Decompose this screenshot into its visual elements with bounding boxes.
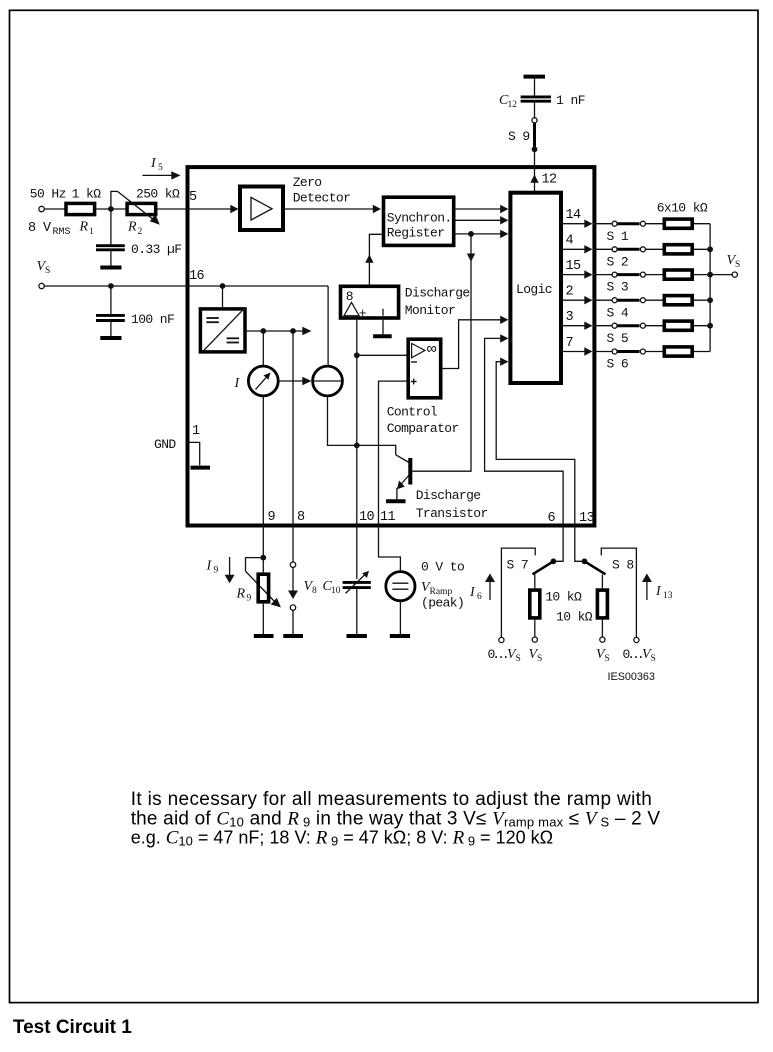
control comparator U7 [387, 339, 459, 436]
wire [262, 602, 264, 634]
switch S7 [507, 558, 557, 575]
svg-text:S 2: S 2 [607, 254, 629, 269]
wire to 100nF [110, 286, 112, 314]
svg-text:S 1: S 1 [607, 229, 629, 244]
arrow into logic [500, 316, 508, 324]
wire VS rail pin 16 [44, 285, 328, 287]
ground [100, 266, 121, 270]
node junction [290, 328, 296, 334]
capacitor 100nF [96, 312, 174, 327]
svg-text:Transistor: Transistor [416, 506, 488, 521]
wire [292, 610, 294, 634]
node junction [108, 206, 114, 212]
svg-text:Register: Register [387, 226, 445, 241]
synchron register U5 [384, 197, 454, 245]
wire node down to base line [470, 234, 472, 471]
svg-text:S: S [735, 260, 740, 270]
svg-text:8: 8 [312, 586, 317, 596]
svg-text:8: 8 [346, 289, 353, 304]
svg-text:12: 12 [508, 100, 518, 110]
wire pin 5 to zero detector [157, 208, 231, 210]
svg-text:6: 6 [548, 511, 556, 526]
svg-text:9: 9 [214, 566, 219, 576]
wire pin 14 row [561, 223, 585, 225]
switch S8 throw contact [601, 548, 636, 637]
svg-text:2: 2 [566, 285, 574, 300]
svg-text:S 9: S 9 [508, 129, 530, 144]
svg-text:8 V: 8 V [28, 221, 52, 236]
wire [645, 248, 662, 250]
node junction [108, 283, 114, 289]
svg-text:3: 3 [566, 310, 574, 325]
rectifier U2 [200, 308, 245, 353]
voltage probe V8 [288, 562, 317, 610]
arrow into register [373, 205, 381, 213]
pin 1 GND [154, 424, 210, 468]
node terminal 0..VS right [634, 637, 639, 642]
svg-text:R: R [127, 220, 137, 235]
node terminal 0..VS left [499, 637, 504, 642]
arrow [302, 377, 311, 385]
wire [645, 223, 662, 225]
resistor 10k (S8) [556, 574, 607, 637]
wire [645, 299, 662, 301]
svg-text:Discharge: Discharge [416, 488, 481, 503]
wire [694, 274, 710, 276]
wire zero detector to register [283, 208, 373, 210]
svg-text:5: 5 [189, 190, 197, 205]
svg-text:4: 4 [566, 234, 574, 249]
switch S6 [607, 349, 646, 372]
svg-text:10 kΩ: 10 kΩ [545, 589, 582, 604]
svg-text:9: 9 [268, 510, 276, 525]
wire [534, 103, 536, 118]
svg-text:9: 9 [247, 594, 252, 604]
svg-text:11: 11 [380, 510, 396, 525]
svg-text:15: 15 [566, 259, 582, 274]
svg-text:50 Hz: 50 Hz [30, 187, 66, 202]
svg-text:250 kΩ: 250 kΩ [136, 187, 180, 202]
svg-text:8: 8 [297, 510, 305, 525]
logic U6 [510, 193, 561, 383]
wire [694, 299, 710, 301]
ground [347, 634, 367, 638]
svg-text:∞: ∞ [427, 340, 437, 358]
ground (top, above C12) [524, 75, 546, 79]
node terminal VS input [37, 259, 51, 289]
svg-text:Detector: Detector [293, 191, 351, 206]
wire [110, 322, 112, 336]
node junction bus S3 [707, 272, 713, 278]
svg-text:10: 10 [331, 586, 341, 596]
svg-text:Test Circuit 1: Test Circuit 1 [13, 1017, 132, 1038]
arrow up into pin 12 [530, 175, 538, 183]
wire source bottom to node [328, 396, 357, 446]
svg-text:7: 7 [566, 336, 574, 351]
arrow [500, 216, 508, 224]
svg-text:nF: nF [571, 93, 585, 108]
svg-text:RMS: RMS [53, 227, 71, 238]
wire meter bottom to pin 9 [262, 396, 264, 558]
arrow [302, 327, 311, 335]
svg-text:0 V to: 0 V to [421, 560, 464, 575]
svg-text:10 kΩ: 10 kΩ [556, 609, 593, 624]
svg-text:13: 13 [579, 511, 595, 526]
svg-text:Synchron.: Synchron. [387, 210, 452, 225]
arrow into logic [500, 334, 508, 342]
wire [262, 558, 264, 574]
svg-text:Monitor: Monitor [405, 303, 455, 318]
capacitor C10 variable [323, 571, 371, 596]
ground (transistor emitter) [386, 499, 405, 503]
wire register out 2 [455, 219, 502, 221]
svg-text:S 6: S 6 [607, 357, 629, 372]
wire comparator plus input / pin 11 [379, 381, 407, 571]
svg-text:S: S [651, 654, 656, 664]
wire [694, 223, 710, 225]
svg-text:Comparator: Comparator [387, 421, 459, 436]
switch S8 [582, 558, 634, 575]
svg-text:2: 2 [138, 227, 143, 237]
svg-text:R: R [79, 220, 89, 235]
wire [96, 208, 125, 210]
switch S4 [607, 298, 646, 321]
wire comparator output to logic [442, 320, 501, 369]
node terminal VS (S8) [600, 637, 605, 642]
svg-text:0.33 µF: 0.33 µF [131, 242, 181, 257]
node junction rectifier feed [220, 283, 226, 289]
svg-text:S: S [516, 654, 521, 664]
node junction [354, 443, 360, 449]
capacitor C12 [499, 93, 585, 110]
wire [356, 589, 358, 634]
wire monitor left leg down (pin 10 line) [356, 320, 358, 579]
node junction bus S2 [707, 246, 713, 252]
wire monitor to register [369, 234, 381, 284]
wire pin 8 [292, 331, 294, 562]
resistor 10k #1 [664, 219, 692, 228]
svg-text:0...: 0... [488, 647, 507, 662]
svg-text:It is necessary for all measur: It is necessary for all measurements to … [131, 789, 653, 810]
discharge monitor U3 [341, 286, 470, 321]
svg-text:6: 6 [477, 592, 482, 602]
current label I9 with arrow [206, 557, 235, 583]
wire pin 12 [534, 149, 536, 192]
wire [44, 208, 66, 210]
source V ramp [386, 560, 464, 611]
svg-text:13: 13 [663, 591, 673, 601]
svg-text:14: 14 [566, 208, 582, 223]
svg-text:S: S [605, 654, 610, 664]
zero detector U4 [240, 175, 350, 230]
wire pin 7 row [561, 351, 585, 353]
wire logic input from pin 6 (S7) [485, 338, 563, 561]
switch S9 [508, 118, 537, 153]
arrow into zero detector [230, 205, 238, 213]
arrow into logic [500, 358, 508, 366]
ground [373, 334, 392, 338]
svg-text:S 4: S 4 [607, 305, 629, 320]
wire to 0.33uF [110, 209, 112, 244]
resistor 10k #4 [664, 296, 692, 305]
arrow up [365, 255, 373, 263]
wire pin 2 row [561, 299, 585, 301]
arrow [500, 230, 508, 238]
wire pin 15 row [561, 274, 585, 276]
svg-text:Discharge: Discharge [405, 286, 470, 301]
current source (circle with bar) [313, 366, 343, 396]
ground [283, 634, 303, 638]
wire rectifier output [245, 330, 304, 332]
node terminal 50Hz input [39, 206, 44, 211]
wire VS rail down to source [327, 286, 329, 366]
current label I6 with arrow [469, 574, 495, 603]
current label I13 with arrow [642, 574, 673, 602]
node junction [354, 352, 360, 358]
wire [222, 286, 224, 307]
switch S1 [607, 221, 646, 244]
switch S2 [607, 247, 646, 270]
ground [390, 634, 410, 638]
wire [534, 79, 536, 96]
resistor 10k #2 [664, 245, 692, 254]
wire base to pin6 riser [412, 470, 471, 472]
node junction bus S4 [707, 297, 713, 303]
wire bus right [709, 224, 711, 352]
svg-text:the aid of C10 and R 9 in the: the aid of C10 and R 9 in the way that 3… [131, 808, 661, 829]
wire [110, 251, 112, 265]
svg-text:S: S [45, 266, 50, 276]
svg-text:S 8: S 8 [612, 558, 634, 573]
svg-text:GND: GND [154, 437, 176, 452]
svg-text:Logic: Logic [516, 282, 552, 297]
wire [694, 248, 710, 250]
wire comparator minus input [357, 354, 407, 356]
resistor 10k #3 [664, 270, 692, 279]
svg-text:0...: 0... [623, 647, 642, 662]
wire monitor right leg to ground [382, 320, 384, 334]
resistor R1 [28, 187, 101, 238]
svg-text:Zero: Zero [293, 175, 322, 190]
current meter I (circle) [234, 366, 279, 396]
ground [254, 634, 274, 638]
svg-text:Control: Control [387, 405, 438, 420]
svg-text:100 nF: 100 nF [131, 312, 174, 327]
wire [262, 331, 264, 366]
svg-text:6x10 kΩ: 6x10 kΩ [657, 200, 708, 215]
wire pin 3 row [561, 325, 585, 327]
node terminal VS right [727, 253, 741, 277]
arrow down [467, 254, 475, 262]
svg-text:10: 10 [359, 510, 375, 525]
switch S7 throw contact [501, 548, 535, 637]
node junction R9 top [260, 555, 266, 561]
svg-text:1: 1 [556, 93, 564, 108]
wire [645, 325, 662, 327]
wire pin 4 row [561, 248, 585, 250]
wire [645, 351, 662, 353]
resistor 10k #6 [664, 347, 692, 356]
svg-text:IES00363: IES00363 [608, 671, 655, 683]
svg-text:5: 5 [158, 163, 163, 173]
arrow [500, 205, 508, 213]
node junction [260, 328, 266, 334]
node junction bus S5 [707, 323, 713, 329]
resistor 10k #5 [664, 321, 692, 330]
svg-text:16: 16 [189, 269, 205, 284]
svg-text:S 7: S 7 [507, 558, 529, 573]
wire between sources [278, 380, 303, 382]
wire [399, 601, 401, 634]
svg-text:1: 1 [89, 227, 94, 237]
capacitor 0.33uF [96, 242, 181, 257]
current label I5 with arrow [142, 156, 180, 180]
resistor 10k (S7) [530, 574, 582, 637]
ground [100, 336, 121, 340]
wire to VS terminal [710, 274, 732, 276]
wire register out 3 [455, 233, 502, 235]
switch S3 [607, 272, 646, 295]
resistor R9 potentiometer [236, 558, 281, 608]
wire [694, 325, 710, 327]
resistor R2 potentiometer [111, 187, 180, 237]
svg-text:12: 12 [542, 173, 558, 188]
IC U1 box [188, 167, 595, 525]
node junction [468, 231, 474, 237]
svg-text:+: + [359, 306, 367, 321]
svg-text:(peak): (peak) [421, 596, 464, 611]
wire logic input from pin 13 (S8) [496, 362, 584, 562]
discharge transistor Q1 [357, 445, 488, 520]
svg-text:S 3: S 3 [607, 280, 629, 295]
wire [694, 351, 710, 353]
svg-text:1 kΩ: 1 kΩ [72, 187, 102, 202]
svg-text:e.g. C10 = 47 nF; 18 V: R 9 =: e.g. C10 = 47 nF; 18 V: R 9 = 47 kΩ; 8 V… [131, 828, 553, 849]
svg-text:1: 1 [192, 424, 200, 439]
node terminal VS (S7) [532, 637, 537, 642]
wire [645, 274, 662, 276]
switch S5 [607, 323, 646, 346]
svg-text:R: R [236, 587, 246, 602]
svg-text:S: S [537, 654, 542, 664]
wire register out 1 [455, 208, 502, 210]
svg-text:S 5: S 5 [607, 331, 629, 346]
